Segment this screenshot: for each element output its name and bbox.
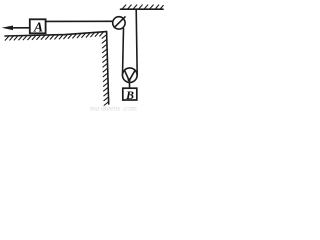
table surface line [5, 32, 107, 36]
ceiling hatching [123, 5, 164, 9]
fixed pulley axle slash [114, 17, 125, 28]
movable pulley yoke right chord [130, 71, 135, 80]
movable pulley yoke left chord [125, 71, 129, 80]
wall hatching [102, 35, 109, 106]
block A [30, 19, 46, 33]
table surface hatching [5, 32, 103, 40]
table vertical edge (wall) [107, 32, 109, 104]
svg-text:A: A [33, 20, 43, 35]
wire rope down from fixed pulley to movable pulley (left side) [123, 29, 124, 76]
ceiling line [121, 8, 164, 10]
movable pulley [123, 68, 138, 83]
force arrow F pointing left from block A [2, 26, 30, 31]
movable pulley axle dot [128, 78, 131, 81]
wire rope from ceiling to movable pulley (right side) [136, 9, 137, 75]
wire rope from A to fixed pulley [46, 20, 115, 22]
hook link from movable pulley to block B [128, 81, 130, 88]
fixed pulley at table corner [113, 17, 125, 29]
block B [123, 88, 137, 100]
svg-text:B: B [125, 88, 134, 102]
svg-text:ma dteens .com: ma dteens .com [90, 104, 137, 113]
